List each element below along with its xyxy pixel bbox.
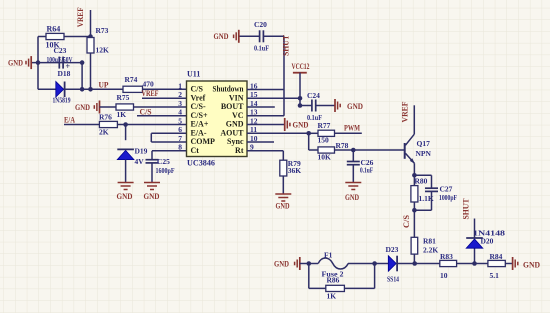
net label VCC12 [292, 61, 310, 71]
label R81 designator [423, 237, 436, 246]
svg-text:GND: GND [144, 191, 160, 201]
wire R83 to D20 junction [457, 263, 475, 265]
svg-text:1: 1 [178, 81, 182, 90]
svg-text:C/S: C/S [140, 107, 152, 117]
svg-text:R73: R73 [96, 26, 109, 35]
svg-text:10: 10 [440, 271, 448, 280]
label Q17 designator [417, 139, 431, 148]
svg-text:VREF: VREF [399, 102, 409, 123]
svg-text:GND: GND [523, 259, 540, 269]
net label C/S pin4 [140, 107, 152, 117]
svg-text:6: 6 [178, 125, 182, 134]
pin name AOUT (pin 11) [220, 129, 244, 138]
wire top rail R64 loop [38, 36, 91, 38]
power ground bar GND left input [26, 56, 31, 69]
junction D20 / rail [472, 261, 477, 266]
wire GND to R75 [100, 106, 117, 108]
pin name BOUT (pin 14) [221, 102, 244, 111]
svg-text:C/S: C/S [401, 215, 411, 228]
label D18 value 1N5819 [53, 97, 71, 105]
label C20 designator [254, 20, 267, 29]
earth ground below D19 [118, 183, 134, 190]
wire C25 to ground [151, 163, 153, 182]
label D19 designator [135, 147, 148, 156]
capacitor C20 [260, 30, 264, 42]
junction left vertical / mid rail [36, 60, 41, 65]
pin name Vref (pin 2) [191, 94, 206, 103]
label R79 designator [288, 159, 301, 168]
pin number 15 [250, 90, 258, 99]
pin number 16 [250, 81, 258, 90]
capacitor C24 [312, 100, 316, 112]
svg-text:UC3846: UC3846 [187, 159, 215, 168]
wire pin 2 VREF stub [142, 97, 187, 99]
label C24 designator [307, 91, 320, 100]
svg-text:7: 7 [178, 134, 182, 143]
svg-text:36K: 36K [288, 166, 302, 175]
junction VCC12 stem / C24 row [298, 103, 303, 108]
wire junction down to D19 [125, 125, 127, 141]
pin name C/S (pin 1) [191, 85, 204, 94]
svg-text:D20: D20 [481, 237, 494, 246]
zener diode D19 [117, 149, 134, 159]
svg-text:4: 4 [178, 108, 182, 117]
junction fuse left [307, 261, 312, 266]
svg-text:U11: U11 [187, 70, 200, 79]
label F1 designator [324, 251, 333, 260]
label R75 value 1K [117, 110, 127, 119]
wire Q17 emitter down [413, 163, 415, 175]
resistor R78 [318, 147, 335, 153]
svg-text:GND: GND [214, 31, 229, 41]
power ground bar GND at R75 [94, 101, 99, 114]
wire to fuse [309, 263, 318, 265]
wire Rt down to R79 [282, 151, 284, 160]
svg-text:5.1: 5.1 [490, 271, 500, 280]
fuse F1 [318, 258, 348, 269]
resistor R80 [411, 186, 418, 202]
wire D20 cathode up to SHUT [474, 219, 476, 239]
net label GND at C20 [214, 31, 229, 41]
svg-text:SHUT: SHUT [281, 35, 291, 56]
pin name E/A- (pin 6) [191, 129, 207, 138]
pin name E/A+ (pin 5) [191, 120, 209, 129]
label R64 designator [47, 25, 61, 34]
label R77 designator [318, 121, 331, 130]
wire junction to R77 [309, 132, 318, 134]
svg-text:BOUT: BOUT [221, 102, 244, 111]
wire C20 right lead [263, 35, 284, 37]
junction right return / mid rail [80, 60, 85, 65]
svg-text:2.2K: 2.2K [423, 246, 438, 255]
net label SHUT vertical top [281, 35, 291, 56]
wire pin 15 VIN stub [247, 97, 300, 99]
net label GND bottom left [274, 258, 289, 268]
label R64 value 10K [46, 41, 61, 50]
resistor R77 [318, 130, 335, 136]
label R76 designator [99, 113, 112, 122]
diode D20 [466, 238, 483, 248]
svg-text:1600pF: 1600pF [156, 167, 175, 175]
wire R77 to PWM [335, 132, 362, 134]
label UC3846 part number [187, 159, 215, 168]
net label E/A [64, 114, 76, 124]
net label VREF vertical top-left [75, 7, 85, 27]
pin number 5 [178, 116, 182, 125]
wire C27 top link [414, 174, 431, 176]
label R73 designator [96, 26, 109, 35]
junction E/A rail / D19 [123, 122, 128, 127]
svg-text:1K: 1K [117, 110, 127, 119]
pin name Rt (pin 9) [235, 146, 244, 155]
capacitor C27 [425, 188, 438, 191]
svg-text:R84: R84 [490, 252, 503, 261]
label R74 value 470 [143, 80, 155, 89]
resistor R64 [46, 33, 64, 39]
power ground bar bottom left [295, 257, 300, 270]
svg-text:C/S+: C/S+ [191, 111, 208, 120]
pin number 12 [250, 116, 258, 125]
svg-text:VCC12: VCC12 [292, 61, 310, 71]
svg-text:VC: VC [232, 111, 244, 120]
label U11 designator [187, 70, 200, 79]
pin name GND (pin 12) [226, 120, 244, 129]
wire down to C26 [352, 150, 354, 162]
pin number 1 [178, 81, 182, 90]
svg-text:1000pF: 1000pF [439, 194, 457, 202]
svg-text:D19: D19 [135, 147, 148, 156]
wire R75 to pin 3 [134, 106, 187, 108]
net label GND at R75 [75, 102, 90, 112]
pin number 14 [250, 99, 258, 108]
pin number 6 [178, 125, 182, 134]
svg-text:R75: R75 [117, 93, 130, 102]
svg-text:Rt: Rt [235, 146, 244, 155]
label D23 value SS14 [387, 275, 399, 284]
wire to C24 [300, 105, 312, 107]
svg-text:1N5819: 1N5819 [53, 97, 71, 105]
svg-text:R81: R81 [423, 237, 436, 246]
wire left vertical of input loop [37, 37, 39, 90]
junction AOUT / R77 R78 [306, 131, 311, 136]
junction fuse right [372, 261, 377, 266]
resistor R74 [123, 86, 143, 92]
svg-text:Sync: Sync [227, 137, 244, 146]
power ground bar at C20 [234, 30, 239, 43]
wire R86 right drop [374, 264, 376, 289]
junction right return / bottom rail [80, 87, 85, 92]
svg-text:C20: C20 [254, 20, 267, 29]
pin number 9 [250, 143, 254, 152]
wire VREF vertical [90, 10, 92, 38]
pin name COMP (pin 7) [191, 137, 216, 146]
label C23 plus sign [66, 62, 71, 71]
label D20 designator [481, 237, 494, 246]
label D19 value 4V [135, 157, 145, 166]
wire R86 left drop [308, 264, 310, 289]
svg-text:R77: R77 [318, 121, 331, 130]
svg-text:C25: C25 [157, 157, 170, 166]
svg-text:PWM: PWM [344, 123, 360, 133]
power ground bar bottom right [513, 257, 518, 270]
svg-text:D18: D18 [58, 69, 71, 78]
wire to R86 [309, 287, 326, 289]
label C25 value 1600pF [156, 167, 175, 175]
resistor R73 [87, 38, 94, 54]
svg-text:5: 5 [178, 116, 182, 125]
label R81 value 2.2K [423, 246, 438, 255]
net label GND below C26 [345, 192, 359, 202]
label R80 designator [415, 177, 428, 186]
pin name Sync (pin 10) [227, 137, 244, 146]
pin number 2 [178, 90, 182, 99]
svg-text:C24: C24 [307, 91, 320, 100]
resistor R81 [411, 237, 418, 254]
wire bottom rail D18 [38, 88, 123, 90]
svg-text:12K: 12K [96, 46, 110, 55]
svg-text:NPN: NPN [416, 149, 432, 158]
svg-text:2K: 2K [99, 128, 109, 137]
svg-text:E/A: E/A [64, 114, 76, 124]
svg-text:GND: GND [276, 201, 290, 211]
pin name VC (pin 13) [232, 111, 244, 120]
label R74 designator [125, 75, 138, 84]
net label GND below C25 [144, 191, 160, 201]
wire C26 to ground [352, 165, 354, 183]
svg-text:150: 150 [318, 136, 330, 145]
label R73 value 12K [96, 46, 110, 55]
svg-text:4V: 4V [135, 157, 145, 166]
wire pin 10 Sync stub [247, 141, 274, 143]
resistor R76 [99, 121, 117, 127]
svg-text:AOUT: AOUT [220, 129, 244, 138]
wire down to R81 [413, 210, 415, 237]
wire R79 to ground [282, 176, 284, 194]
wire to R78 [309, 149, 318, 151]
label R79 value 36K [288, 166, 302, 175]
transistor Q17 NPN [405, 134, 415, 164]
svg-text:3: 3 [178, 99, 182, 108]
wire right return vertical [81, 63, 83, 90]
wire C27 upper vertical [431, 175, 433, 188]
svg-text:0.1uF: 0.1uF [360, 167, 373, 175]
pin number 4 [178, 108, 182, 117]
junction R81 / bottom rail [412, 261, 417, 266]
wire pin 16 Shutdown stub [247, 89, 284, 91]
wire pin 14 BOUT stub [247, 106, 275, 108]
label R83 value 10 [440, 271, 448, 280]
label R78 value 10K [318, 153, 332, 162]
net label UP [99, 80, 109, 90]
label R83 designator [440, 252, 453, 261]
wire R76 to pin 5 [117, 124, 186, 126]
label R80 value 1.1K [419, 194, 434, 203]
wire D19 to ground [125, 160, 127, 183]
net label GND below R79 [276, 201, 290, 211]
svg-text:VIN: VIN [229, 94, 244, 103]
svg-text:GND: GND [274, 258, 289, 268]
svg-text:8: 8 [178, 143, 182, 152]
svg-text:E/A-: E/A- [191, 129, 207, 138]
svg-text:Vref: Vref [191, 94, 206, 103]
svg-text:SHUT: SHUT [461, 198, 471, 219]
pin number 13 [250, 108, 258, 117]
op-amp U11 UC3846 body [187, 81, 248, 157]
resistor R75 [116, 104, 134, 110]
pin number 7 [178, 134, 182, 143]
label R78 designator [336, 141, 349, 150]
junction VIN / VCC12 stem [298, 96, 303, 101]
label C26 designator [361, 158, 374, 167]
svg-text:UP: UP [99, 80, 109, 90]
label Q17 type NPN [416, 149, 432, 158]
label C27 designator [440, 185, 453, 194]
label R84 value 5.1 [490, 271, 500, 280]
wire GND to C20 [239, 35, 260, 37]
resistor R83 [440, 260, 457, 266]
power ground bar at pin 12 [285, 118, 290, 131]
svg-text:VREF: VREF [142, 88, 159, 98]
label C24 value 0.1uF [307, 114, 322, 122]
wire pin 11 AOUT stub [247, 132, 309, 134]
wire C24 to GND [316, 105, 335, 107]
wire junction to D23 [375, 263, 389, 265]
wire D20 anode lead [474, 248, 476, 263]
capacitor C26 [347, 162, 360, 165]
pin number 10 [250, 134, 258, 143]
wire emitter junction to R80 [413, 175, 415, 185]
pin name C/S+ (pin 4) [191, 111, 208, 120]
svg-text:0.1uF: 0.1uF [254, 45, 269, 53]
earth ground below R79 [275, 194, 291, 201]
net label SHUT vertical bottom [461, 198, 471, 219]
label C25 designator [157, 157, 170, 166]
junction R80 bottom / C27 [412, 208, 417, 213]
svg-text:1K: 1K [327, 292, 337, 301]
pin name Ct (pin 8) [191, 146, 200, 155]
resistor R84 [488, 260, 505, 266]
wire D23 to R81 junction [397, 263, 415, 265]
wire SHUT vertical [283, 36, 285, 116]
svg-text:C/S: C/S [191, 85, 204, 94]
wire pin 8 stub [152, 150, 187, 152]
svg-text:E/A+: E/A+ [191, 120, 209, 129]
wire pin 12 GND stub [247, 124, 285, 126]
svg-text:R76: R76 [99, 113, 112, 122]
earth ground below C26 [345, 183, 361, 190]
svg-text:GND: GND [75, 102, 90, 112]
wire pin 13 VC stub [247, 115, 284, 117]
svg-text:VREF: VREF [75, 7, 85, 27]
wire R86 to right drop [344, 287, 374, 289]
pin name VIN (pin 15) [229, 94, 244, 103]
label C23 value 100uF/50V [47, 56, 73, 64]
wire gnd to fuse junction [300, 263, 309, 265]
wire R84 to GND right [505, 263, 512, 265]
pin number 3 [178, 99, 182, 108]
net label VREF pin2 [142, 88, 159, 98]
net label GND left input [8, 58, 23, 68]
net label GND at C24 [347, 101, 363, 111]
net label GND bottom right [523, 259, 540, 269]
svg-text:R86: R86 [327, 276, 340, 285]
svg-text:R74: R74 [125, 75, 138, 84]
net label C/S vertical [401, 215, 411, 228]
net label VREF vertical at Q17 [399, 102, 409, 123]
pin number 8 [178, 143, 182, 152]
wire pin 4 C/S stub [137, 115, 187, 117]
resistor R79 [280, 160, 287, 176]
wire Q17 collector vertical [413, 105, 415, 134]
power port VCC12 bar [293, 72, 307, 74]
label C27 value 1000pF [439, 194, 457, 202]
junction emitter / R80 C27 [412, 173, 417, 178]
junction R78 / C26 [351, 148, 356, 153]
wire D20 junction to R84 [475, 263, 488, 265]
wire pin 6 stub [151, 132, 186, 134]
label D18 designator [58, 69, 71, 78]
svg-text:2: 2 [178, 90, 182, 99]
svg-text:R78: R78 [336, 141, 349, 150]
label C20 value 0.1uF [254, 45, 269, 53]
label R86 designator [327, 276, 340, 285]
pin name C/S- (pin 3) [191, 102, 206, 111]
svg-text:SS14: SS14 [387, 275, 399, 284]
label F1 value Fuse 2 [322, 269, 344, 278]
wire C27 bottom link [414, 209, 431, 211]
label R75 designator [117, 93, 130, 102]
wire R73 to UP rail [90, 53, 92, 89]
svg-text:GND: GND [117, 191, 133, 201]
svg-text:R83: R83 [440, 252, 453, 261]
wire R80 bottom [413, 202, 415, 210]
svg-text:Ct: Ct [191, 146, 200, 155]
wire junction to R83 [415, 263, 440, 265]
svg-text:GND: GND [345, 192, 359, 202]
wire pin8 down to C25 [151, 151, 153, 160]
label D20 value 1N4148 [473, 229, 505, 238]
power ground bar at C24 [335, 99, 340, 112]
wire pin 9 Rt stub [247, 150, 283, 152]
svg-text:GND: GND [347, 101, 363, 111]
pin name Shutdown (pin 16) [213, 85, 244, 94]
resistor R86 [326, 285, 345, 291]
label R84 designator [490, 252, 503, 261]
svg-text:COMP: COMP [191, 137, 216, 146]
pin number 11 [250, 125, 257, 134]
wire VCC12 stem [299, 73, 301, 106]
junction VREF / top rail [88, 34, 93, 39]
diode D18 [56, 82, 65, 98]
svg-text:Q17: Q17 [417, 139, 431, 148]
net label GND below D19 [117, 191, 133, 201]
earth ground below C25 [144, 183, 160, 190]
label R77 value 150 [318, 136, 330, 145]
svg-text:C27: C27 [440, 185, 453, 194]
net label PWM [344, 123, 360, 133]
label R76 value 2K [99, 128, 109, 137]
net label GND at pin12 [293, 120, 309, 130]
label D23 designator [386, 245, 399, 254]
svg-text:10K: 10K [318, 153, 332, 162]
svg-text:C23: C23 [54, 46, 67, 55]
label C23 designator [54, 46, 67, 55]
wire pin 7 stub [151, 141, 186, 143]
junction R73 / UP rail [88, 87, 93, 92]
wire E/A rail [64, 124, 99, 126]
svg-text:F1: F1 [324, 251, 333, 260]
svg-text:R64: R64 [47, 25, 61, 34]
